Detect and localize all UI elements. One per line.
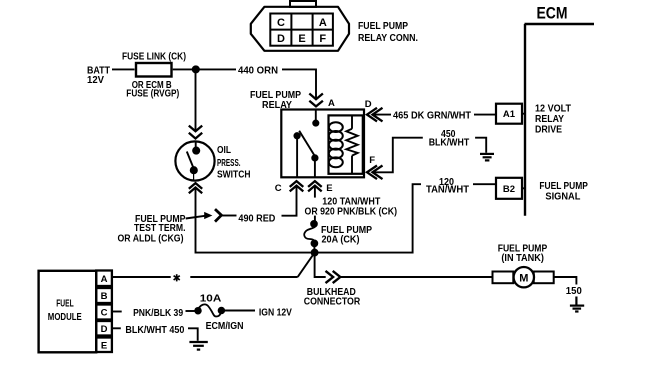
svg-text:C: C bbox=[277, 17, 285, 29]
svg-text:OR 920 PNK/BLK (CK): OR 920 PNK/BLK (CK) bbox=[305, 207, 398, 218]
svg-text:ECM/IGN: ECM/IGN bbox=[206, 321, 244, 332]
relay pin F terminal chevrons bbox=[367, 166, 383, 180]
wire junction down to bulkhead connector bbox=[315, 253, 326, 277]
svg-text:IGN 12V: IGN 12V bbox=[259, 307, 292, 318]
fuel module pin E box bbox=[96, 338, 112, 353]
label FUEL PUMP SIGNAL bbox=[539, 181, 588, 203]
fuel module body bbox=[39, 271, 97, 353]
ground (fuel module 450) bbox=[189, 342, 207, 350]
svg-text:MODULE: MODULE bbox=[48, 312, 82, 323]
svg-text:SWITCH: SWITCH bbox=[217, 170, 251, 181]
svg-text:FUEL PUMP: FUEL PUMP bbox=[539, 181, 588, 192]
wire to ground symbol bbox=[475, 138, 486, 153]
label 120 TAN/WHT OR 920 PNK/BLK (CK) bbox=[305, 196, 398, 217]
fuse 10A ECM/IGN bbox=[195, 308, 201, 314]
ECM left edge bbox=[524, 24, 526, 216]
svg-text:A: A bbox=[101, 274, 108, 285]
svg-text:10A: 10A bbox=[200, 293, 222, 304]
relay resistor R1 bbox=[346, 115, 357, 173]
ECM top edge bbox=[525, 23, 595, 25]
svg-text:20A (CK): 20A (CK) bbox=[322, 234, 360, 245]
ground (450 BLK/WHT) bbox=[480, 154, 494, 161]
node junction 440 ORN / oil switch feed bbox=[193, 66, 199, 72]
svg-text:D: D bbox=[277, 33, 285, 45]
label FUEL PUMP TEST TERM. OR ALDL (CKG) bbox=[118, 214, 186, 244]
connector pin letters C A D E F bbox=[277, 17, 327, 45]
splice star bbox=[174, 274, 180, 281]
wire fuse link to junction bbox=[173, 68, 236, 70]
fuel pump motor M1 right housing bbox=[534, 272, 554, 284]
wire continues to bulkhead diagonal bbox=[190, 276, 297, 278]
svg-text:A: A bbox=[319, 17, 327, 29]
svg-text:DRIVE: DRIVE bbox=[535, 124, 562, 135]
svg-text:C: C bbox=[101, 308, 108, 319]
ECM terminal A1 box bbox=[496, 104, 522, 124]
svg-text:A: A bbox=[328, 98, 335, 109]
fuel module pin A box bbox=[96, 271, 112, 287]
svg-text:CONNECTOR: CONNECTOR bbox=[304, 297, 361, 308]
relay coil L1 bbox=[329, 122, 343, 167]
relay pin C terminal chevrons bbox=[290, 181, 304, 191]
wire oil switch to fuel pump feed run bbox=[196, 184, 422, 252]
oil pressure switch bottom terminal chevrons bbox=[189, 183, 202, 193]
relay stationary contact node (pin C) bbox=[294, 133, 299, 138]
bulkhead connector chevrons bbox=[326, 271, 341, 283]
fuel pump relay connector outline bbox=[251, 7, 349, 51]
svg-text:12V: 12V bbox=[87, 75, 104, 86]
node fuel pump feed junction bbox=[312, 250, 318, 256]
relay switch arm bbox=[299, 131, 315, 157]
svg-text:F: F bbox=[369, 155, 375, 166]
wire 490 RED to test terminal bbox=[222, 215, 237, 217]
svg-text:F: F bbox=[319, 33, 326, 45]
fuel module pin B box bbox=[96, 288, 112, 303]
label 12 VOLT RELAY DRIVE bbox=[535, 103, 571, 135]
svg-text:FUSE (RVGP): FUSE (RVGP) bbox=[126, 89, 179, 100]
svg-text:PRESS.: PRESS. bbox=[217, 158, 241, 169]
svg-text:RELAY CONN.: RELAY CONN. bbox=[358, 33, 418, 44]
relay armature node (pin E) bbox=[312, 155, 317, 160]
wire bulkhead to fuel pump bbox=[340, 276, 492, 278]
wire BATT to fuse link bbox=[112, 68, 135, 70]
label FUEL PUMP (IN TANK) bbox=[498, 244, 548, 264]
relay pin E terminal chevrons bbox=[308, 181, 322, 191]
wire to module ground bbox=[188, 328, 198, 341]
wire diagonal junction to bulkhead run bbox=[298, 253, 315, 277]
svg-text:PNK/BLK 39: PNK/BLK 39 bbox=[133, 308, 183, 319]
svg-text:M: M bbox=[519, 272, 528, 284]
svg-text:E: E bbox=[298, 33, 305, 45]
connector tab (relay conn detail) bbox=[290, 1, 316, 7]
wire module pin A to bulkhead bbox=[112, 276, 171, 278]
fuse link F1 box bbox=[136, 63, 172, 77]
wire fuse to junction node bbox=[313, 243, 315, 252]
wire fuse to IGN 12V bbox=[224, 310, 255, 312]
relay pin A terminal chevrons bbox=[309, 94, 323, 107]
svg-text:E: E bbox=[326, 183, 332, 194]
fuel pump motor M1 left housing bbox=[493, 272, 514, 284]
svg-text:A1: A1 bbox=[503, 109, 516, 120]
svg-text:TAN/WHT: TAN/WHT bbox=[426, 185, 469, 196]
wire fuel pump to ground bbox=[554, 277, 577, 285]
label OIL PRESS. SWITCH bbox=[217, 145, 251, 181]
svg-text:150: 150 bbox=[566, 286, 582, 297]
label BULKHEAD CONNECTOR bbox=[304, 287, 361, 307]
svg-text:440 ORN: 440 ORN bbox=[238, 65, 278, 76]
wire F to ground 450 BLK/WHT bbox=[373, 138, 423, 173]
ground (150) bbox=[570, 297, 584, 312]
svg-text:B2: B2 bbox=[503, 184, 515, 195]
svg-text:D: D bbox=[101, 324, 108, 335]
wire 440 ORN to relay pin A corner bbox=[282, 69, 316, 99]
svg-text:E: E bbox=[101, 340, 107, 351]
svg-text:OR ALDL (CKG): OR ALDL (CKG) bbox=[118, 233, 184, 244]
wire pin E down to 20A fuse bbox=[314, 186, 316, 198]
svg-text:12 VOLT: 12 VOLT bbox=[535, 103, 571, 114]
label OR ECM B FUSE (RVGP) bbox=[126, 80, 179, 99]
svg-text:490 RED: 490 RED bbox=[238, 213, 275, 224]
label 120 TAN/WHT (B2) bbox=[426, 177, 469, 196]
wire pin C to 490 RED bbox=[282, 186, 297, 216]
svg-text:(IN TANK): (IN TANK) bbox=[501, 253, 544, 264]
svg-text:OIL: OIL bbox=[217, 145, 231, 156]
svg-text:FUEL PUMP: FUEL PUMP bbox=[358, 21, 408, 32]
svg-text:SIGNAL: SIGNAL bbox=[545, 191, 580, 202]
svg-text:465 DK GRN/WHT: 465 DK GRN/WHT bbox=[393, 110, 471, 121]
svg-text:RELAY: RELAY bbox=[535, 114, 564, 125]
fuse FUEL PUMP 20A (CK) bbox=[311, 221, 317, 227]
svg-text:B: B bbox=[101, 291, 108, 302]
oil pressure switch S1 body bbox=[175, 141, 214, 180]
svg-text:BLK/WHT: BLK/WHT bbox=[429, 138, 470, 149]
label FUEL PUMP RELAY bbox=[250, 90, 301, 111]
relay coil inner box bbox=[329, 115, 363, 173]
label 450 BLK/WHT bbox=[429, 129, 470, 148]
svg-text:FUEL: FUEL bbox=[56, 299, 73, 310]
oil pressure switch internal contacts bbox=[195, 141, 197, 150]
wire 120 TAN/WHT to B2 bbox=[473, 183, 496, 185]
wire 465 DK GRN/WHT segments bbox=[373, 114, 392, 116]
svg-text:ECM: ECM bbox=[537, 4, 568, 23]
connector pin grid bbox=[270, 14, 333, 46]
svg-text:BLK/WHT 450: BLK/WHT 450 bbox=[125, 325, 184, 336]
battery label BATT 12V bbox=[87, 66, 110, 86]
fuel module pin C box bbox=[96, 305, 112, 320]
wire module pin C stub bbox=[112, 311, 122, 313]
oil pressure switch feed wire bbox=[195, 69, 197, 131]
relay pin D terminal chevrons bbox=[367, 108, 383, 122]
label FUEL PUMP 20A (CK) bbox=[321, 225, 372, 246]
fuel pump test terminal (female) bbox=[215, 209, 221, 222]
relay U1 outer box bbox=[281, 110, 364, 178]
label FUEL MODULE bbox=[48, 299, 82, 323]
fuel module pin D box bbox=[96, 321, 112, 336]
fuel pump motor M1 bbox=[514, 267, 534, 287]
svg-text:C: C bbox=[275, 183, 282, 194]
oil pressure switch top terminal chevrons bbox=[189, 126, 202, 139]
svg-text:FUSE LINK (CK): FUSE LINK (CK) bbox=[122, 51, 186, 62]
label FUEL PUMP RELAY CONN. bbox=[358, 21, 418, 44]
wire to 10A fuse bbox=[186, 310, 196, 312]
svg-text:D: D bbox=[365, 99, 372, 110]
wire module pin D stub bbox=[112, 327, 121, 329]
fuel pump test terminal probe arrow bbox=[204, 212, 212, 219]
ECM terminal B2 box bbox=[496, 178, 522, 199]
relay fixed contact node (pin A) bbox=[315, 110, 317, 122]
